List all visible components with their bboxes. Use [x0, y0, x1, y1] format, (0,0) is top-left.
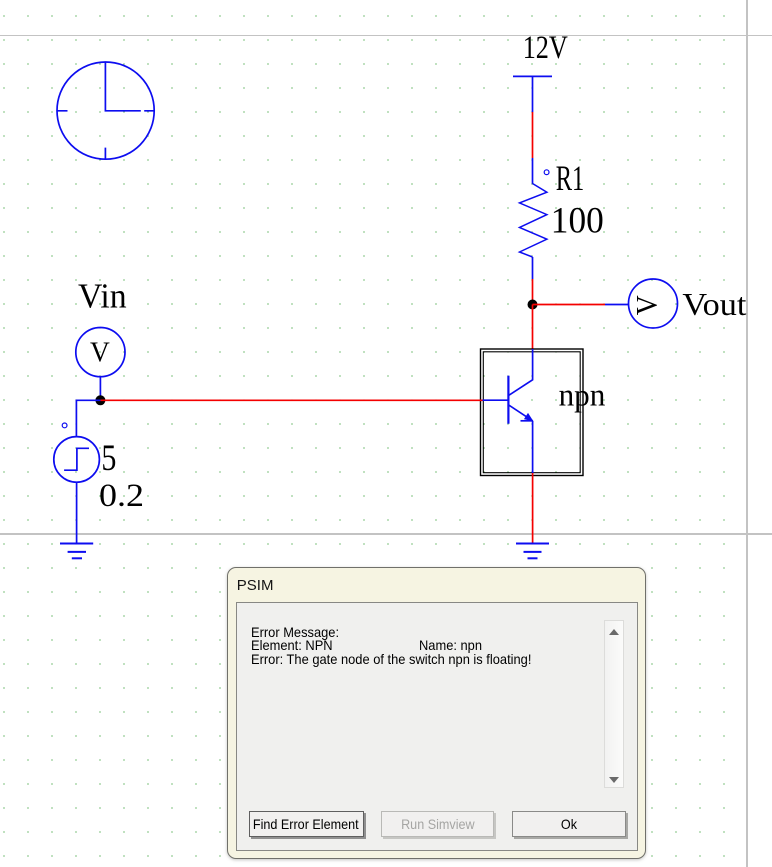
wire blue to resistor	[532, 158, 534, 184]
dc source V2 bar	[513, 75, 552, 77]
wire blue below resistor	[532, 257, 534, 279]
transistor Q npn symbol	[483, 349, 533, 473]
dialog text line 2	[251, 637, 333, 653]
svg-text:100: 100	[551, 200, 604, 241]
node junction dot left	[95, 395, 105, 405]
wire blue to voltmeter	[605, 304, 629, 306]
button Run Simview disabled	[381, 811, 494, 837]
voltmeter probe Vin circle	[76, 328, 125, 377]
white strip right of page boundary	[748, 0, 772, 867]
dialog text line 3	[251, 651, 531, 667]
wire red segment	[532, 112, 534, 158]
wire blue from dc bar	[532, 76, 534, 112]
ground symbol left	[60, 544, 93, 559]
wire red node to transistor base	[100, 399, 482, 401]
transistor box inner	[483, 352, 580, 473]
page boundary horizontal line top	[0, 35, 772, 37]
button Ok	[512, 811, 627, 837]
svg-text:V: V	[630, 295, 663, 315]
square wave source VSQ circle	[54, 437, 100, 483]
hot-node marker circle near R1	[544, 170, 549, 175]
transistor box outer	[481, 349, 584, 476]
node junction dot	[528, 300, 538, 310]
dialog text name field	[419, 637, 482, 653]
clock symbol	[57, 62, 154, 160]
hot-node marker circle near source	[62, 423, 67, 428]
wire red node to right	[533, 304, 606, 306]
wire blue probe to node	[99, 377, 101, 401]
svg-text:0.2: 0.2	[99, 478, 144, 514]
resistor R1 zigzag	[520, 184, 547, 258]
scrollbar up arrow	[609, 629, 619, 635]
button Find Error Element	[249, 811, 364, 837]
scrollbar down arrow	[609, 777, 619, 783]
wire red to node	[532, 279, 534, 305]
svg-text:npn: npn	[559, 377, 606, 413]
svg-text:Vout: Vout	[682, 286, 746, 322]
svg-text:R1: R1	[556, 158, 585, 198]
svg-text:5: 5	[101, 438, 116, 479]
PSIM error dialog window	[227, 567, 646, 859]
wire blue node to square source	[76, 400, 100, 437]
voltmeter probe Vout circle	[629, 279, 678, 328]
page boundary horizontal line middle	[0, 533, 772, 535]
dialog inner panel	[236, 602, 638, 851]
svg-text:V: V	[90, 337, 110, 369]
page boundary vertical line	[746, 0, 748, 867]
ground symbol under transistor	[516, 544, 549, 559]
transistor emitter arrowhead	[525, 414, 533, 421]
svg-text:12V: 12V	[523, 30, 568, 66]
wire red node down to transistor	[532, 305, 534, 350]
dialog text line 1	[251, 624, 339, 640]
dialog title PSIM	[237, 577, 274, 594]
wire blue source to ground	[76, 482, 78, 543]
square wave step symbol	[64, 448, 89, 470]
scrollbar track	[604, 620, 624, 788]
wire red transistor to ground	[532, 473, 534, 544]
svg-text:Vin: Vin	[78, 277, 127, 316]
